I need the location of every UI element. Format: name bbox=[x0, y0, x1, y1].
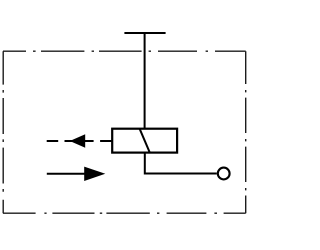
enclosure boundary (dash-dot box), top side bbox=[3, 50, 246, 52]
diagonal stroke inside actuator box bbox=[140, 129, 150, 153]
enclosure boundary, right side bbox=[245, 51, 247, 213]
wire (vertical, from bar to actuator box) bbox=[144, 33, 146, 129]
arrow (solid, pointing right) bbox=[47, 173, 88, 175]
enclosure boundary, bottom side bbox=[3, 212, 246, 214]
terminal bar (top reference line) bbox=[124, 32, 165, 34]
wire (from actuator box bottom, L-shaped to terminal) bbox=[145, 153, 217, 174]
enclosure boundary, left side bbox=[2, 51, 4, 213]
arrowhead (pointing left, filled) bbox=[70, 134, 85, 148]
actuator box (rectangle with diagonal) bbox=[112, 129, 177, 153]
dashed actuation line (left) bbox=[47, 140, 113, 142]
arrowhead (pointing right, filled) bbox=[84, 167, 105, 181]
terminal circle bbox=[218, 168, 230, 180]
